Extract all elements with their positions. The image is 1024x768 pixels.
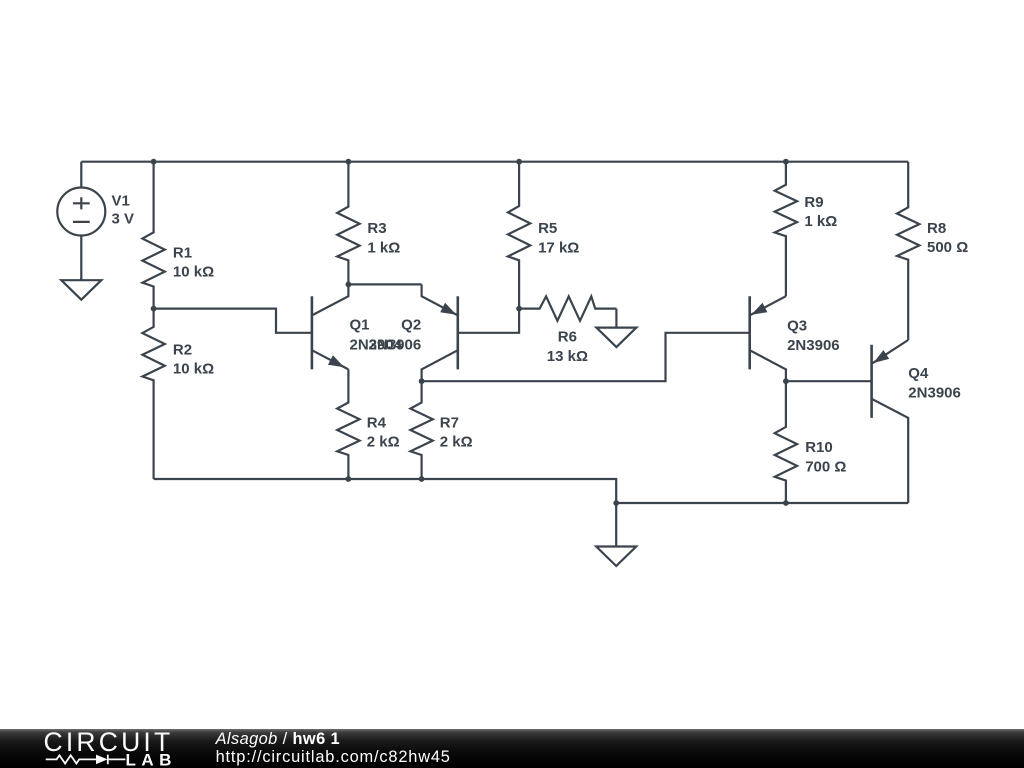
svg-text:R3: R3	[367, 220, 386, 237]
svg-text:R6: R6	[558, 328, 577, 345]
ground bottom	[615, 503, 617, 547]
node R3 bottom / Q1 collector	[346, 282, 352, 288]
svg-text:LAB: LAB	[126, 751, 177, 768]
node top rail / R9	[783, 159, 789, 165]
resistor R3	[337, 162, 359, 285]
svg-text:2N3906: 2N3906	[369, 336, 422, 353]
node R1 R2 junction	[151, 306, 157, 312]
svg-text:Alsagob / hw6 1: Alsagob / hw6 1	[215, 730, 340, 748]
resistor R8	[897, 162, 919, 340]
svg-text:500 Ω: 500 Ω	[927, 239, 968, 256]
voltage source V1	[57, 188, 105, 236]
svg-text:1 kΩ: 1 kΩ	[367, 239, 400, 256]
node R10 bottom rail	[783, 500, 789, 506]
svg-text:13 kΩ: 13 kΩ	[547, 348, 588, 365]
svg-text:Q1: Q1	[350, 317, 370, 334]
wire Q3 collector to Q4 base	[786, 380, 872, 382]
svg-text:R1: R1	[173, 245, 192, 262]
wire V1 bottom lead	[80, 236, 82, 281]
svg-text:R4: R4	[367, 415, 387, 432]
footer bar	[0, 729, 1024, 768]
svg-text:2N3906: 2N3906	[787, 337, 840, 354]
ground below V1	[80, 278, 82, 280]
svg-text:R9: R9	[804, 194, 823, 211]
transistor Q4	[870, 345, 873, 418]
resistor R1	[142, 162, 164, 309]
wire Q1 collector node to Q2 emitter	[348, 283, 421, 285]
svg-text:Q2: Q2	[401, 317, 421, 334]
node top rail / R1	[151, 159, 157, 165]
wire V1 top lead	[80, 162, 82, 188]
svg-text:10 kΩ: 10 kΩ	[173, 264, 214, 281]
wire Q2 collector to Q3 base	[422, 333, 750, 381]
svg-text:Q3: Q3	[787, 317, 807, 334]
resistor R2	[142, 309, 164, 479]
wire bottom right rail	[616, 502, 908, 504]
node R5 R6 junction	[516, 306, 522, 312]
resistor R5	[508, 162, 530, 309]
node R4 bottom rail	[346, 476, 352, 482]
svg-text:10 kΩ: 10 kΩ	[173, 360, 214, 377]
resistor R4	[337, 369, 359, 479]
svg-text:R5: R5	[538, 220, 557, 237]
svg-text:2N3906: 2N3906	[908, 384, 961, 401]
node top rail / R3	[346, 159, 352, 165]
svg-text:1 kΩ: 1 kΩ	[804, 213, 837, 230]
transistor Q3	[748, 296, 751, 369]
svg-text:R10: R10	[805, 439, 833, 456]
ground at R6	[615, 309, 617, 328]
wire bottom left rail	[154, 479, 617, 503]
svg-text:R8: R8	[927, 220, 946, 237]
svg-text:2 kΩ: 2 kΩ	[440, 434, 473, 451]
resistor R10	[775, 381, 797, 503]
svg-text:17 kΩ: 17 kΩ	[538, 239, 579, 256]
svg-text:2 kΩ: 2 kΩ	[367, 434, 400, 451]
resistor R9	[775, 162, 797, 297]
wire Q2 base to R5 node	[458, 309, 519, 333]
node bottom ground junction	[613, 500, 619, 506]
resistor R6	[519, 296, 616, 320]
svg-text:http://circuitlab.com/c82hw45: http://circuitlab.com/c82hw45	[216, 748, 451, 766]
svg-text:700 Ω: 700 Ω	[805, 458, 846, 475]
wire top power rail	[81, 161, 908, 163]
CircuitLab logo resistor-diode glyph	[46, 755, 96, 763]
node Q3 collector / R10	[783, 378, 789, 384]
wire R1R2 junction to Q1 base	[154, 309, 312, 333]
svg-text:Q4: Q4	[908, 365, 929, 382]
node R7 bottom rail	[419, 476, 425, 482]
transistor Q1	[311, 296, 314, 369]
svg-text:R7: R7	[440, 415, 459, 432]
resistor R7	[410, 381, 432, 479]
svg-text:R2: R2	[173, 342, 192, 359]
node Q2 collector / R7	[419, 378, 425, 384]
svg-text:3 V: 3 V	[112, 211, 135, 228]
node top rail / R5	[516, 159, 522, 165]
svg-text:V1: V1	[112, 192, 130, 209]
transistor Q2	[456, 296, 459, 369]
